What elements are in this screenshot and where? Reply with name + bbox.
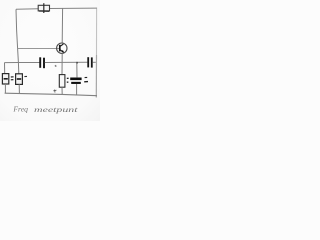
wire emitter vertical — [61, 53, 63, 75]
wire left vertical rail — [16, 9, 19, 74]
C3 polarity/value marks — [84, 77, 88, 81]
wire branch down to C3 — [76, 62, 78, 77]
wire base — [18, 47, 60, 49]
wire top rail — [16, 8, 97, 9]
caption text: Freq meetpunt — [12, 104, 79, 114]
wire middle rail left segment — [4, 62, 39, 64]
resistor R3 (second box) — [16, 74, 23, 85]
svg-text:Freq: Freq — [12, 104, 28, 113]
value mark between R2 and R3 — [11, 77, 14, 80]
wire C3 lead down — [76, 84, 78, 95]
pencil squiggle near bottom rail — [53, 90, 56, 93]
transistor Q1 — [57, 43, 67, 53]
capacitor C1 (series, vertical plates) — [40, 57, 44, 68]
resistor R4 (emitter resistor box) — [59, 75, 65, 88]
junction node at C3 branch — [76, 62, 78, 64]
value mark right of R3 — [24, 75, 27, 77]
wire bottom rail — [5, 93, 97, 96]
resistor R2 (left box) — [2, 74, 8, 84]
wire R2 lead down — [4, 84, 6, 93]
right paper-edge line — [96, 8, 98, 56]
R4 value dots — [67, 78, 69, 82]
wire R4 lead down — [61, 87, 63, 95]
wire middle rail right stub — [93, 61, 96, 63]
wire middle rail center segment — [45, 61, 88, 63]
svg-text:meetpunt: meetpunt — [34, 105, 79, 114]
resistor R1 (top, with center tick) — [38, 3, 49, 13]
pencil tick near emitter junction — [55, 65, 57, 67]
capacitor C2 (series, vertical plates) — [88, 57, 92, 67]
wire middle rail left corner down — [4, 63, 6, 74]
capacitor C3 (horizontal plates) — [70, 79, 81, 83]
wire R3 lead down — [18, 84, 20, 93]
paper background — [0, 0, 100, 121]
wire collector (top rail down to Q1) — [61, 8, 63, 43]
